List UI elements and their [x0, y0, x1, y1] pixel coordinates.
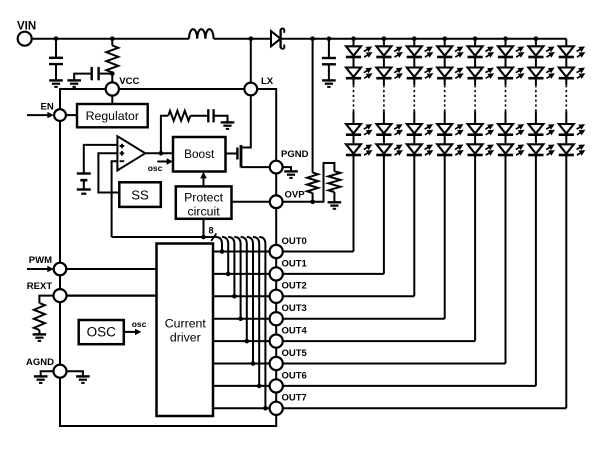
svg-text:OUT3: OUT3	[282, 303, 307, 314]
svg-text:VCC: VCC	[119, 76, 139, 87]
svg-text:Regulator: Regulator	[86, 109, 139, 123]
svg-text:OUT2: OUT2	[282, 281, 307, 292]
svg-text:OUT0: OUT0	[282, 236, 307, 247]
svg-text:SS: SS	[131, 187, 149, 202]
svg-text:Boost: Boost	[184, 147, 215, 161]
svg-text:OUT1: OUT1	[282, 258, 308, 269]
svg-text:OSC: OSC	[87, 325, 117, 340]
svg-text:Current: Current	[165, 316, 207, 330]
svg-text:VIN: VIN	[17, 21, 36, 33]
svg-text:osc: osc	[132, 319, 147, 329]
svg-text:REXT: REXT	[27, 281, 53, 292]
svg-text:OVP: OVP	[285, 190, 306, 201]
svg-text:PGND: PGND	[281, 149, 309, 160]
svg-text:circuit: circuit	[188, 205, 221, 219]
svg-text:OUT6: OUT6	[282, 370, 307, 381]
svg-text:PWM: PWM	[29, 255, 52, 266]
svg-text:OUT4: OUT4	[282, 326, 308, 337]
svg-text:osc: osc	[148, 163, 163, 173]
svg-text:OUT7: OUT7	[282, 393, 307, 404]
svg-text:LX: LX	[261, 76, 274, 87]
svg-text:EN: EN	[41, 102, 54, 113]
svg-text:AGND: AGND	[26, 357, 54, 368]
svg-text:Protect: Protect	[184, 191, 224, 205]
svg-text:OUT5: OUT5	[282, 348, 308, 359]
svg-text:8: 8	[209, 226, 214, 236]
svg-text:driver: driver	[170, 331, 201, 345]
